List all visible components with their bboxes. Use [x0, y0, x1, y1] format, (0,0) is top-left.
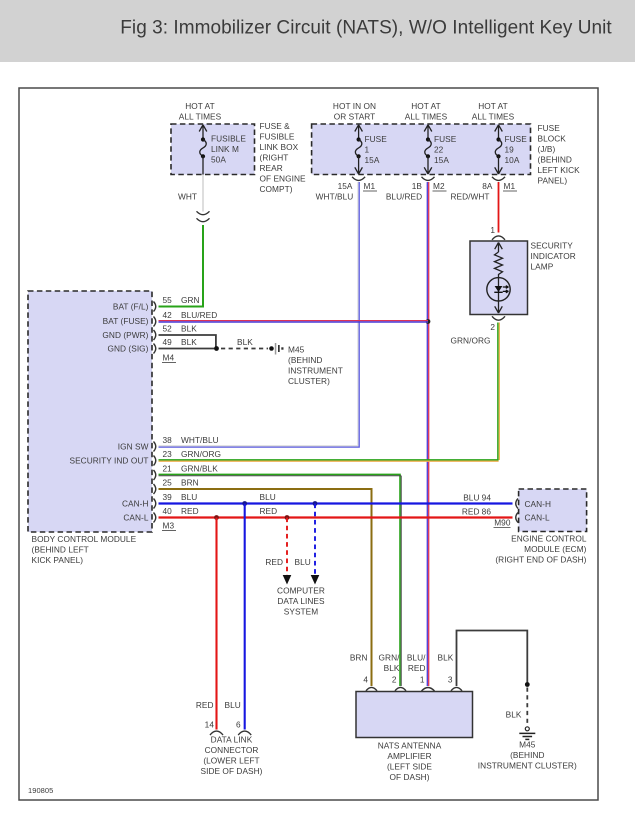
- engine control module box: [516, 489, 587, 532]
- svg-text:190805: 190805: [28, 786, 53, 795]
- note: NATS antenna amplifier location: [378, 741, 442, 783]
- svg-text:COMPUTER: COMPUTER: [277, 586, 325, 596]
- svg-text:DATA LINES: DATA LINES: [277, 596, 325, 606]
- wire label BLU/RED (NATS pin 1): [407, 653, 426, 674]
- pin 55 BAT (F/L): [154, 295, 200, 312]
- note: body control module location: [32, 534, 137, 565]
- svg-text:NATS ANTENNA: NATS ANTENNA: [378, 741, 442, 751]
- svg-text:BLK: BLK: [438, 653, 454, 663]
- svg-text:GRN/ORG: GRN/ORG: [451, 336, 491, 346]
- pin label 8A M1 (fuse 19 output): [450, 181, 517, 202]
- svg-text:SIDE OF DASH): SIDE OF DASH): [201, 766, 263, 776]
- svg-text:REAR: REAR: [260, 163, 283, 173]
- wire BLU (CAN-H branch to computer data lines): [295, 504, 320, 585]
- svg-text:(RIGHT END OF DASH): (RIGHT END OF DASH): [495, 555, 586, 565]
- svg-text:LINK M: LINK M: [211, 144, 239, 154]
- svg-text:BLK: BLK: [506, 710, 522, 720]
- node HOT AT ALL TIMES (fuse 19 feed): [472, 101, 515, 122]
- wire BLK (BCM pin 52 to ground junction): [159, 335, 216, 349]
- svg-text:COMPT): COMPT): [260, 184, 293, 194]
- svg-text:1: 1: [420, 675, 425, 685]
- wire GRN (to BCM pin 55): [159, 225, 204, 307]
- svg-text:HOT AT: HOT AT: [185, 101, 215, 111]
- svg-text:40: 40: [163, 506, 173, 516]
- svg-text:CAN-H: CAN-H: [525, 499, 552, 509]
- svg-text:M1: M1: [504, 181, 516, 191]
- svg-text:(RIGHT: (RIGHT: [260, 153, 289, 163]
- svg-text:38: 38: [163, 435, 173, 445]
- svg-text:RED: RED: [408, 663, 426, 673]
- svg-text:BLU: BLU: [225, 700, 241, 710]
- node: computer data lines system: [277, 586, 325, 617]
- pin 14 (data link connector): [205, 720, 223, 736]
- svg-text:GRN: GRN: [181, 295, 200, 305]
- node HOT AT ALL TIMES (fuse 22 feed): [405, 101, 448, 122]
- svg-text:(BEHIND: (BEHIND: [538, 155, 572, 165]
- svg-text:42: 42: [163, 310, 173, 320]
- title bar: [0, 0, 635, 62]
- svg-text:WHT/BLU: WHT/BLU: [316, 192, 354, 202]
- wire BLU CAN-H (BCM pin 39 to ECM pin 94): [159, 492, 513, 506]
- connector M4 label: [162, 353, 176, 363]
- svg-text:52: 52: [163, 324, 173, 334]
- svg-text:IGN SW: IGN SW: [118, 442, 149, 452]
- svg-text:BLU/RED: BLU/RED: [386, 192, 422, 202]
- svg-text:M45: M45: [519, 740, 536, 750]
- svg-text:HOT AT: HOT AT: [478, 101, 508, 111]
- svg-text:PANEL): PANEL): [538, 176, 568, 186]
- pin 1 (security indicator lamp): [490, 225, 505, 240]
- inline connector (WHT to GRN splice): [197, 211, 210, 221]
- svg-text:86: 86: [482, 507, 492, 517]
- svg-text:ALL TIMES: ALL TIMES: [472, 112, 515, 122]
- wire BLK (NATS amp pin 3 to M45 ground): [457, 631, 530, 727]
- pin 21: [154, 464, 219, 481]
- svg-text:SYSTEM: SYSTEM: [284, 607, 318, 617]
- wire BLU/RED (BCM pin 42 to fuse 22 feed): [159, 321, 429, 322]
- pin 40 CAN-L: [154, 506, 199, 523]
- svg-text:BLK: BLK: [181, 324, 197, 334]
- svg-text:BLU: BLU: [260, 492, 276, 502]
- svg-text:BLK: BLK: [384, 663, 400, 673]
- pin 38 IGN SW: [154, 435, 219, 452]
- wire WHT/BLU (fuse 1 to BCM pin 38): [159, 182, 360, 447]
- svg-text:M90: M90: [494, 518, 511, 528]
- svg-text:RED: RED: [462, 507, 480, 517]
- svg-text:BLU: BLU: [463, 493, 479, 503]
- note: data link connector location: [201, 735, 263, 777]
- pin 2 (NATS amp): [392, 675, 406, 691]
- note: security indicator lamp: [531, 241, 576, 272]
- svg-text:FUSE: FUSE: [434, 134, 457, 144]
- inline connector M45 (ground lead): [269, 343, 283, 355]
- wire BRN (BCM pin 25 to NATS amp pin 4): [159, 489, 372, 686]
- svg-text:25: 25: [163, 478, 173, 488]
- svg-text:RED: RED: [260, 506, 278, 516]
- wire RED CAN-L (BCM pin 40 to ECM pin 86): [159, 506, 513, 520]
- wire GRN/ORG (lamp pin 2 to BCM pin 23): [159, 323, 500, 462]
- svg-text:39: 39: [163, 492, 173, 502]
- svg-text:LAMP: LAMP: [531, 262, 554, 272]
- fuse 22 15A: [422, 125, 457, 181]
- svg-text:1B: 1B: [412, 181, 423, 191]
- wire RED/WHT (fuse 19 to lamp pin 1): [498, 182, 500, 233]
- pin 49 GND (SIG): [154, 337, 198, 354]
- svg-text:2: 2: [490, 322, 495, 332]
- svg-text:1: 1: [490, 225, 495, 235]
- note: fuse block location: [538, 123, 581, 186]
- svg-text:BLK: BLK: [237, 337, 253, 347]
- svg-text:(BEHIND LEFT: (BEHIND LEFT: [32, 545, 89, 555]
- svg-text:15A: 15A: [338, 181, 353, 191]
- svg-text:(BEHIND: (BEHIND: [510, 750, 544, 760]
- svg-text:50A: 50A: [211, 155, 226, 165]
- pin 52 GND (PWR): [154, 324, 198, 341]
- pin 4 (NATS amp): [363, 675, 377, 691]
- svg-text:CAN-L: CAN-L: [123, 513, 148, 523]
- svg-text:BLU: BLU: [181, 492, 197, 502]
- fuse block box (J/B): [312, 124, 531, 175]
- connector M3 label: [162, 521, 176, 531]
- svg-text:CONNECTOR: CONNECTOR: [205, 745, 259, 755]
- fuse 1 15A: [352, 125, 387, 181]
- wire WHT (fusible link to connector): [178, 175, 203, 212]
- lamp U1 security indicator lamp: [470, 241, 528, 315]
- svg-text:22: 22: [434, 145, 444, 155]
- svg-text:M4: M4: [163, 353, 175, 363]
- junction (BLU/RED vertical to BCM pin 42 wire): [426, 319, 431, 324]
- LED (lamp internal): [487, 278, 510, 314]
- resistor (lamp internal): [495, 252, 503, 278]
- wire BLU/RED (fuse 22 to NATS amp pin 1): [427, 182, 428, 686]
- pin 3 (NATS amp): [448, 675, 462, 691]
- pin 39 CAN-H: [154, 492, 198, 509]
- fusible link box (fuse & fusible link box): [171, 124, 255, 175]
- wire BLU (CAN-H to DLC pin 6): [225, 504, 245, 730]
- svg-text:4: 4: [363, 675, 368, 685]
- svg-text:ALL TIMES: ALL TIMES: [405, 112, 448, 122]
- svg-text:(LEFT SIDE: (LEFT SIDE: [387, 762, 432, 772]
- svg-text:FUSIBLE: FUSIBLE: [260, 132, 295, 142]
- svg-text:BRN: BRN: [181, 478, 199, 488]
- svg-text:FUSE: FUSE: [538, 123, 561, 133]
- svg-text:BAT (FUSE): BAT (FUSE): [103, 316, 149, 326]
- node HOT IN ON OR START (fuse 1 feed): [333, 101, 376, 122]
- svg-text:15A: 15A: [434, 155, 449, 165]
- svg-text:49: 49: [163, 337, 173, 347]
- svg-text:FUSE: FUSE: [505, 134, 528, 144]
- pin 1 (NATS amp): [420, 675, 435, 692]
- svg-text:M3: M3: [163, 521, 175, 531]
- svg-text:RED: RED: [181, 506, 199, 516]
- note: M45 ground location: [478, 740, 577, 771]
- svg-text:BLK: BLK: [181, 337, 197, 347]
- svg-text:OF DASH): OF DASH): [389, 772, 429, 782]
- pin 2 (security indicator lamp): [490, 316, 505, 332]
- note: fuse & fusible link box location: [260, 121, 307, 194]
- svg-text:ALL TIMES: ALL TIMES: [179, 112, 222, 122]
- svg-text:GND (PWR): GND (PWR): [102, 330, 148, 340]
- svg-text:KICK PANEL): KICK PANEL): [32, 555, 84, 565]
- svg-text:(LOWER LEFT: (LOWER LEFT: [203, 756, 259, 766]
- svg-text:CAN-H: CAN-H: [122, 499, 149, 509]
- svg-text:19: 19: [505, 145, 515, 155]
- svg-text:ENGINE CONTROL: ENGINE CONTROL: [511, 534, 587, 544]
- svg-text:LEFT KICK: LEFT KICK: [538, 165, 581, 175]
- svg-text:14: 14: [205, 720, 215, 730]
- svg-text:SECURITY IND OUT: SECURITY IND OUT: [69, 456, 148, 466]
- svg-text:MODULE (ECM): MODULE (ECM): [524, 544, 587, 554]
- svg-text:BRN: BRN: [350, 653, 368, 663]
- svg-text:2: 2: [392, 675, 397, 685]
- svg-text:INSTRUMENT: INSTRUMENT: [288, 366, 343, 376]
- svg-text:GRN/ORG: GRN/ORG: [181, 449, 221, 459]
- svg-text:GRN/: GRN/: [379, 653, 401, 663]
- svg-text:HOT IN ON: HOT IN ON: [333, 101, 376, 111]
- ground M45: [519, 727, 535, 740]
- svg-text:M2: M2: [433, 181, 445, 191]
- wire label GRN/BLK (NATS pin 2): [379, 653, 401, 674]
- svg-text:BLU/: BLU/: [407, 653, 426, 663]
- svg-text:INSTRUMENT CLUSTER): INSTRUMENT CLUSTER): [478, 761, 577, 771]
- svg-text:55: 55: [163, 295, 173, 305]
- svg-text:BLOCK: BLOCK: [538, 134, 567, 144]
- svg-text:10A: 10A: [505, 155, 520, 165]
- svg-text:94: 94: [482, 493, 492, 503]
- connector M90 label: [494, 518, 511, 528]
- svg-text:DATA LINK: DATA LINK: [211, 735, 253, 745]
- wire label BRN (NATS pin 4): [350, 653, 368, 663]
- svg-text:LINK BOX: LINK BOX: [260, 142, 299, 152]
- svg-text:RED: RED: [265, 557, 283, 567]
- svg-text:21: 21: [163, 464, 173, 474]
- body control module box: [28, 291, 152, 532]
- svg-text:WHT/BLU: WHT/BLU: [181, 435, 219, 445]
- svg-text:FUSE &: FUSE &: [260, 121, 291, 131]
- svg-text:RED: RED: [196, 700, 214, 710]
- wire GRN/BLK (BCM pin 21 to NATS amp pin 2): [159, 474, 402, 686]
- wire RED (CAN-L branch to computer data lines): [265, 518, 291, 585]
- svg-text:CAN-L: CAN-L: [525, 513, 550, 523]
- svg-text:BLU/RED: BLU/RED: [181, 310, 217, 320]
- svg-text:OF ENGINE: OF ENGINE: [260, 174, 307, 184]
- svg-text:RED/WHT: RED/WHT: [450, 192, 489, 202]
- svg-text:HOT AT: HOT AT: [411, 101, 441, 111]
- svg-text:OR START: OR START: [334, 112, 376, 122]
- svg-text:WHT: WHT: [178, 192, 197, 202]
- svg-text:GRN/BLK: GRN/BLK: [181, 464, 218, 474]
- NATS antenna amplifier box: [356, 692, 473, 738]
- pin 25: [154, 478, 199, 495]
- wire RED (CAN-L to DLC pin 14): [196, 518, 217, 730]
- svg-text:M45: M45: [288, 345, 305, 355]
- svg-text:(BEHIND: (BEHIND: [288, 355, 322, 365]
- svg-text:23: 23: [163, 449, 173, 459]
- svg-text:BODY CONTROL MODULE: BODY CONTROL MODULE: [32, 534, 137, 544]
- svg-text:BAT (F/L): BAT (F/L): [113, 302, 149, 312]
- svg-text:6: 6: [236, 720, 241, 730]
- pin 6 (data link connector): [236, 720, 251, 736]
- svg-text:M1: M1: [364, 181, 376, 191]
- pin 23 SECURITY IND OUT: [154, 449, 222, 466]
- note: M45 (behind instrument cluster): [288, 345, 343, 387]
- pin label 15A M1 (fuse 1 output): [316, 181, 377, 202]
- svg-text:AMPLIFIER: AMPLIFIER: [387, 751, 431, 761]
- diagram frame: [19, 88, 598, 800]
- svg-text:FUSE: FUSE: [365, 134, 388, 144]
- pin 42 BAT (FUSE): [154, 310, 218, 327]
- pin label 1B M2 (fuse 22 output): [386, 181, 447, 202]
- svg-text:15A: 15A: [365, 155, 380, 165]
- wire BLK (BCM pin 49 to M45 splice): [159, 337, 269, 351]
- note: engine control module location: [495, 534, 586, 565]
- svg-text:CLUSTER): CLUSTER): [288, 376, 330, 386]
- svg-text:BLU: BLU: [295, 557, 311, 567]
- svg-text:SECURITY: SECURITY: [531, 241, 574, 251]
- fuse 19 10A: [492, 125, 527, 181]
- svg-text:INDICATOR: INDICATOR: [531, 251, 576, 261]
- svg-text:8A: 8A: [482, 181, 493, 191]
- svg-text:3: 3: [448, 675, 453, 685]
- svg-text:(J/B): (J/B): [538, 144, 556, 154]
- node HOT AT ALL TIMES (fusible link feed): [179, 101, 222, 122]
- svg-text:Fig 3: Immobilizer Circuit (NA: Fig 3: Immobilizer Circuit (NATS), W/O I…: [120, 18, 612, 39]
- svg-text:1: 1: [365, 145, 370, 155]
- wire label BLK (NATS pin 3): [438, 653, 454, 663]
- svg-text:FUSIBLE: FUSIBLE: [211, 134, 246, 144]
- fusible link M 50A: [199, 125, 246, 175]
- svg-text:GND (SIG): GND (SIG): [107, 344, 148, 354]
